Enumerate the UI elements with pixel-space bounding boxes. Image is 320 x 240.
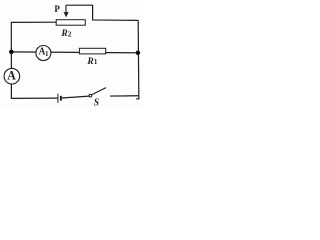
switch pivot circle [89, 94, 92, 97]
ammeter A1 circle [36, 46, 51, 61]
svg-text:P: P [54, 4, 60, 14]
wire: middle row from left node through A1 and R1 to right node [11, 51, 138, 54]
svg-text:1: 1 [94, 58, 98, 66]
wire: potentiometer wiper bypass (up, right, step down, right to top-right corner) [66, 5, 138, 20]
switch lever (open) [92, 88, 107, 95]
wire: top-left horizontal from corner to R2, left vertical edge, bottom-left to battery [11, 22, 57, 98]
potentiometer wiper arrow P shaft [65, 5, 67, 12]
svg-text:R: R [86, 57, 93, 67]
svg-text:R: R [60, 29, 67, 39]
battery short thick plate (negative) [60, 96, 62, 101]
wire: right vertical edge with bottom hook [136, 20, 139, 99]
ammeter A circle [4, 68, 20, 84]
node: left junction dot [9, 50, 14, 55]
resistor R2 box [56, 20, 85, 26]
node: right junction dot [136, 51, 141, 56]
wire: switch fixed contact to bottom-right corner [110, 95, 138, 97]
svg-text:1: 1 [45, 50, 49, 58]
resistor R1 box [79, 48, 105, 54]
background [0, 0, 144, 108]
wire: battery to switch pivot [62, 96, 89, 98]
svg-text:2: 2 [68, 31, 72, 39]
svg-text:A: A [7, 68, 16, 82]
battery long plate (positive) [57, 94, 59, 103]
potentiometer wiper arrow head [64, 12, 69, 17]
svg-text:S: S [94, 97, 99, 108]
